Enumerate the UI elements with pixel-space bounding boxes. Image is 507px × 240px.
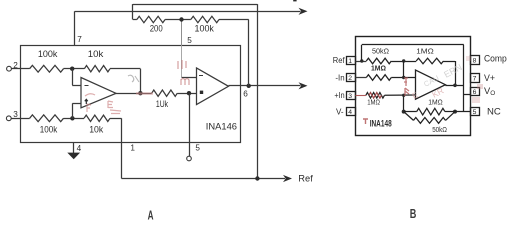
svg-text:2: 2 xyxy=(13,61,18,70)
svg-text:+In: +In xyxy=(334,91,344,100)
svg-text:INA146: INA146 xyxy=(206,122,237,133)
svg-text:5: 5 xyxy=(473,109,477,116)
svg-text:-In: -In xyxy=(335,73,344,82)
svg-text:6: 6 xyxy=(473,89,477,96)
svg-text:1: 1 xyxy=(348,58,352,65)
svg-text:5: 5 xyxy=(195,144,200,153)
svg-text:E: E xyxy=(411,90,420,100)
svg-text:5: 5 xyxy=(187,36,192,45)
svg-text:200: 200 xyxy=(150,24,163,34)
svg-text:100k: 100k xyxy=(195,24,215,34)
svg-text:2: 2 xyxy=(348,75,352,82)
svg-text:Ref: Ref xyxy=(333,56,346,65)
svg-text:A: A xyxy=(148,208,154,223)
svg-text:V+: V+ xyxy=(484,73,495,83)
svg-text:10k: 10k xyxy=(89,124,103,134)
svg-text:KR: KR xyxy=(430,85,445,99)
svg-text:1Uk: 1Uk xyxy=(156,99,169,109)
svg-text:8: 8 xyxy=(473,58,477,65)
svg-text:1MΩ: 1MΩ xyxy=(371,63,386,72)
svg-text:50kΩ: 50kΩ xyxy=(372,47,390,56)
svg-text:Ref: Ref xyxy=(298,173,313,183)
svg-text:7: 7 xyxy=(77,35,82,44)
svg-text:INA148: INA148 xyxy=(370,119,392,129)
svg-text:VO: VO xyxy=(484,86,495,97)
svg-text:V-: V- xyxy=(336,107,344,116)
svg-text:B: B xyxy=(410,207,417,221)
svg-text:ERN: ERN xyxy=(442,62,463,80)
svg-text:3: 3 xyxy=(13,110,18,119)
svg-text:1MΩ: 1MΩ xyxy=(367,100,380,107)
svg-text:3: 3 xyxy=(348,93,352,100)
svg-text:100k: 100k xyxy=(40,124,58,134)
svg-text:50kΩ: 50kΩ xyxy=(432,125,447,134)
svg-text:10k: 10k xyxy=(88,49,104,59)
svg-text:100k: 100k xyxy=(38,49,58,59)
svg-text:6: 6 xyxy=(243,90,248,99)
svg-text:4: 4 xyxy=(348,109,352,116)
svg-text:1MΩ: 1MΩ xyxy=(416,47,434,56)
svg-text:Comp: Comp xyxy=(484,53,507,63)
svg-text:NC: NC xyxy=(487,106,501,116)
svg-text:1: 1 xyxy=(130,144,135,153)
svg-text:4: 4 xyxy=(77,144,82,153)
svg-text:7: 7 xyxy=(473,76,477,83)
svg-text:1MΩ: 1MΩ xyxy=(428,99,443,106)
